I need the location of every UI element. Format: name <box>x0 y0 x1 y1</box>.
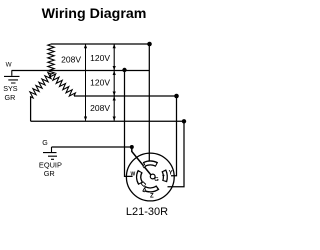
wire Y drop to receptacle right slot <box>171 96 177 176</box>
svg-text:W: W <box>6 61 12 68</box>
svg-text:Y: Y <box>169 171 173 177</box>
wire phase Z line <box>31 97 184 122</box>
svg-text:SYS: SYS <box>3 84 18 93</box>
svg-text:Z: Z <box>150 193 154 199</box>
svg-text:Wiring Diagram: Wiring Diagram <box>42 6 147 22</box>
wire Z drop to receptacle bottom slot <box>168 121 185 187</box>
transformer winding T1 (vertical, phase X leg) <box>48 44 54 74</box>
dimension line column 2 (X-W 120V, W-Y 120V, Y-Z 208V) <box>113 44 115 121</box>
dimension line 208V (X to Z) <box>85 44 87 121</box>
svg-text:GR: GR <box>5 93 16 102</box>
junction dot W <box>122 68 126 72</box>
svg-text:120V: 120V <box>90 53 110 63</box>
junction dot X <box>147 42 152 47</box>
junction dot Z <box>182 119 186 123</box>
slot Y (right) <box>162 170 165 181</box>
svg-text:208V: 208V <box>61 55 81 65</box>
svg-text:120V: 120V <box>90 77 110 87</box>
ground symbol SYS GR <box>4 71 20 84</box>
receptacle center pin G <box>150 174 155 179</box>
transformer winding T2 (down-left, phase Z leg) <box>30 73 51 98</box>
transformer winding T3 (down-right, phase Y leg) <box>50 74 76 96</box>
wire phase X line <box>51 43 149 45</box>
wire G diagonal to receptacle center <box>132 147 151 175</box>
junction dot G <box>130 145 134 149</box>
slot X (top) <box>143 163 157 167</box>
svg-text:208V: 208V <box>90 103 110 113</box>
svg-text:L21-30R: L21-30R <box>126 206 168 218</box>
wire W drop to receptacle left slot <box>125 71 133 177</box>
wire equipment ground line <box>52 146 132 148</box>
wire neutral W line <box>12 70 150 72</box>
slot W (left) <box>139 171 146 185</box>
svg-text:GR: GR <box>44 169 55 178</box>
svg-text:W: W <box>131 171 136 177</box>
ground symbol EQUIP GR <box>43 147 57 159</box>
receptacle L21-30R outer circle <box>126 153 174 201</box>
junction dot Y <box>174 94 179 99</box>
wire X drop to receptacle top slot <box>148 44 150 162</box>
wire phase Y line <box>74 95 177 97</box>
slot Z (bottom) <box>143 187 158 191</box>
svg-text:G: G <box>42 139 48 147</box>
svg-text:G: G <box>154 177 159 183</box>
